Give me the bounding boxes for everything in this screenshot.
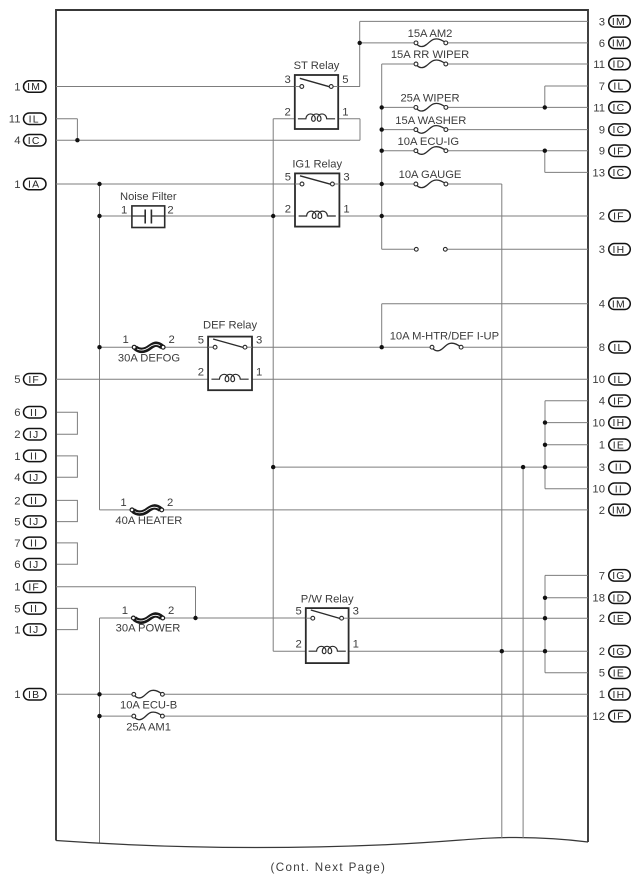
wire DEF pin1 to 10 IL (252, 378, 588, 380)
connector 5 II (14, 603, 46, 616)
svg-text:IF: IF (28, 375, 40, 386)
wire 10A GAUGE out (446, 183, 502, 185)
connector 2 II (14, 495, 46, 508)
node wiper tap (380, 105, 384, 109)
wire coil bus (x=273) (272, 119, 274, 651)
connector 3 IM (599, 16, 631, 29)
connector 5 IJ (14, 516, 46, 529)
svg-text:II: II (30, 604, 38, 615)
wire 10 IH (545, 422, 588, 424)
node 2 IF tap (380, 214, 384, 218)
svg-text:1: 1 (121, 205, 127, 217)
connector 10 IL (592, 373, 630, 386)
jumper bracket 7 II / 6 IJ (57, 543, 77, 564)
svg-text:1: 1 (353, 639, 359, 651)
svg-text:1: 1 (14, 689, 20, 701)
connector 2 IJ (14, 429, 46, 442)
wire 6 IM fuse feed (360, 42, 416, 44)
svg-text:IM: IM (27, 82, 41, 93)
svg-text:IC: IC (28, 136, 41, 147)
svg-text:IJ: IJ (29, 625, 39, 636)
wire 9 IF out (446, 150, 588, 152)
svg-text:IM: IM (612, 17, 626, 28)
wire 4 IF (545, 400, 588, 402)
connector 7 II (14, 537, 46, 550)
fuse 15A WASHER (395, 115, 466, 133)
connector 4 IJ (14, 471, 46, 484)
svg-text:5: 5 (14, 517, 20, 529)
svg-text:II: II (30, 408, 38, 419)
svg-text:10A GAUGE: 10A GAUGE (399, 169, 462, 181)
svg-text:11: 11 (593, 59, 605, 71)
wire 40A HEATER feed (100, 509, 133, 511)
svg-text:10: 10 (592, 418, 605, 430)
svg-text:10A ECU-IG: 10A ECU-IG (398, 136, 460, 148)
svg-text:IF: IF (28, 582, 40, 593)
relay ST Relay (285, 60, 349, 129)
wire P/W pin2 lead (273, 650, 306, 652)
svg-text:18: 18 (592, 593, 605, 605)
wire 3 IH out (445, 248, 588, 250)
fuse 10A ECU-IG (398, 136, 460, 154)
wire 25A WIPER feed (382, 106, 416, 108)
svg-text:3: 3 (353, 606, 359, 618)
connector 1 IJ (14, 624, 46, 637)
svg-text:7: 7 (599, 81, 605, 93)
wire IF/IH/IE/II tie bus (544, 401, 546, 489)
connector 1 II (14, 450, 46, 463)
svg-text:15A WASHER: 15A WASHER (395, 115, 466, 127)
svg-text:IE: IE (613, 440, 625, 451)
svg-text:7: 7 (14, 538, 20, 550)
connector 5 IF (14, 373, 46, 386)
wire 11 ID out (446, 63, 588, 65)
svg-text:IL: IL (613, 82, 624, 93)
node NF feed (97, 214, 101, 218)
connector 11 IL (9, 113, 46, 126)
fusible link 30A DEFOG (118, 334, 180, 364)
connector 10 II (592, 483, 630, 496)
jumper bracket 1 II / 4 IJ (57, 456, 77, 477)
svg-text:2: 2 (167, 497, 173, 509)
wire 1 IA to IG1 pin5 (56, 183, 302, 185)
svg-text:5: 5 (285, 172, 291, 184)
node IB split (97, 692, 101, 696)
node AM2 tap (358, 41, 362, 45)
noise filter C1 (120, 191, 177, 228)
svg-text:1: 1 (14, 625, 20, 637)
node gauge tap (380, 182, 384, 186)
svg-text:1: 1 (343, 204, 349, 216)
svg-text:2: 2 (599, 613, 605, 625)
node 18 ID tap (543, 596, 547, 600)
wire 3 II (273, 466, 588, 468)
svg-text:IG: IG (612, 647, 625, 658)
svg-text:6: 6 (14, 407, 20, 419)
node IA split (97, 182, 101, 186)
svg-text:2: 2 (168, 605, 174, 617)
svg-text:IF: IF (613, 211, 625, 222)
relay DEF Relay (198, 319, 262, 390)
node 2 IG tap (500, 649, 504, 653)
svg-text:11: 11 (593, 102, 605, 114)
svg-text:13: 13 (592, 167, 605, 179)
svg-text:2: 2 (296, 639, 302, 651)
svg-text:9: 9 (599, 146, 605, 158)
connector 7 IL (599, 80, 631, 93)
wire 1 IB feed (56, 693, 134, 695)
wire ST relay pin1 drop (359, 119, 361, 140)
svg-text:IL: IL (613, 343, 624, 354)
connector 11 ID (593, 58, 630, 71)
svg-text:IC: IC (613, 103, 626, 114)
connector 1 IM (14, 81, 46, 94)
svg-text:4: 4 (14, 472, 20, 484)
node DEFOG feed (97, 345, 101, 349)
svg-text:25A AM1: 25A AM1 (126, 721, 171, 733)
wire ST relay pin5 riser (359, 21, 361, 86)
svg-text:ID: ID (613, 60, 626, 71)
connector 9 IF (599, 145, 631, 158)
wire 4 IC (56, 139, 360, 141)
wire 8 IL out (461, 346, 588, 348)
svg-text:10A M-HTR/DEF I-UP: 10A M-HTR/DEF I-UP (390, 330, 499, 342)
svg-text:II: II (30, 496, 38, 507)
node AM1 feed (97, 714, 101, 718)
wire 11 IC out (446, 106, 588, 108)
svg-text:IF: IF (613, 146, 625, 157)
svg-text:IE: IE (613, 614, 625, 625)
svg-text:4: 4 (14, 135, 20, 147)
connector 12 IF (592, 710, 630, 723)
wire 10A ECU-IG feed (382, 150, 416, 152)
wire power to P/W pin5 (163, 617, 306, 619)
node 3 II drop (521, 465, 525, 469)
wire 7 IL (545, 85, 588, 87)
wire 1 IF drop (195, 587, 197, 618)
svg-text:IJ: IJ (29, 560, 39, 571)
wire heater to 2 IM (162, 509, 588, 511)
node 2 IG tie (543, 649, 547, 653)
svg-text:IM: IM (612, 39, 626, 50)
svg-text:4: 4 (599, 396, 605, 408)
jumper bracket 6 II / 2 IJ (57, 412, 77, 434)
svg-text:11: 11 (9, 114, 21, 126)
svg-text:IF: IF (613, 396, 625, 407)
fuse 10A ECU-B (120, 690, 177, 711)
svg-text:2: 2 (599, 211, 605, 223)
svg-text:IB: IB (28, 690, 40, 701)
connector 13 IC (592, 167, 630, 180)
svg-text:II: II (615, 484, 623, 495)
svg-text:(Cont. Next Page): (Cont. Next Page) (271, 861, 387, 874)
svg-text:II: II (30, 539, 38, 550)
svg-text:IM: IM (612, 506, 626, 517)
node mhtr tap (380, 345, 384, 349)
node 2 IE tap (543, 616, 547, 620)
connector 1 IH (599, 689, 631, 702)
wire 6 IM out (446, 42, 588, 44)
svg-text:II: II (615, 463, 623, 474)
fuse 25A WIPER (400, 93, 459, 112)
diagram border frame (56, 10, 588, 842)
fuse 15A RR WIPER (391, 49, 469, 67)
svg-text:4: 4 (599, 299, 605, 311)
connector 4 IF (599, 395, 631, 408)
wire 4 IM riser (381, 304, 383, 347)
wire 7 IG (545, 574, 588, 576)
svg-text:9: 9 (599, 125, 605, 137)
connector 3 II (599, 461, 631, 474)
wire IA feed bus upper (x=99.5) (99, 184, 101, 510)
wire 1 IE (545, 444, 588, 446)
wire 10 II (545, 488, 588, 490)
node IF/power (193, 616, 197, 620)
connector 1 IE (599, 439, 631, 452)
wire 13 IC out (545, 171, 588, 173)
connector 5 IE (599, 667, 631, 680)
svg-text:10: 10 (592, 484, 605, 496)
fuse 25A AM1 (126, 712, 171, 733)
connector 7 IG (599, 570, 631, 583)
svg-text:1: 1 (599, 440, 605, 452)
torn-page wavy bottom edge (56, 837, 588, 847)
wire DEFOG to DEF pin5 (163, 346, 215, 348)
svg-text:IJ: IJ (29, 517, 39, 528)
wire 11 IL stub (56, 118, 77, 120)
wire IG1 pin3 to gauge fuse (339, 183, 416, 185)
svg-text:2: 2 (14, 429, 20, 441)
svg-text:3: 3 (599, 462, 605, 474)
wire P/W pin1 to 2 IG (349, 650, 588, 652)
wire 4 IM (382, 303, 588, 305)
fusible link 40A HEATER (115, 497, 182, 527)
wire ST pin2 lead (273, 118, 295, 120)
wire 25A AM1 feed (100, 715, 134, 717)
svg-text:30A POWER: 30A POWER (116, 623, 181, 635)
svg-text:2: 2 (599, 646, 605, 658)
wire 3 IH open feed (382, 248, 417, 250)
svg-text:P/W Relay: P/W Relay (301, 593, 354, 605)
svg-text:3: 3 (343, 172, 349, 184)
node 1 IE tap (543, 443, 547, 447)
node IL/IC (75, 138, 79, 142)
svg-text:15A AM2: 15A AM2 (408, 28, 453, 40)
node coil bus NF (271, 214, 275, 218)
node ecuig tap (380, 149, 384, 153)
wire 9 IC out (446, 129, 588, 131)
svg-text:1: 1 (14, 582, 20, 594)
svg-text:DEF Relay: DEF Relay (203, 319, 257, 331)
svg-text:1: 1 (122, 605, 128, 617)
node washer tap (380, 127, 384, 131)
svg-text:Noise Filter: Noise Filter (120, 191, 177, 203)
svg-text:1: 1 (14, 81, 20, 93)
svg-text:25A WIPER: 25A WIPER (400, 93, 459, 105)
svg-text:IG: IG (612, 571, 625, 582)
svg-text:1: 1 (599, 689, 605, 701)
svg-text:1: 1 (342, 106, 348, 118)
svg-text:2: 2 (599, 505, 605, 517)
connector 18 ID (592, 592, 630, 605)
wire NF to IG1 pin2 (165, 215, 295, 217)
svg-text:5: 5 (14, 603, 20, 615)
jumper bracket 5 II / 1 IJ (57, 608, 77, 629)
wire ST pin5 out (332, 86, 360, 88)
svg-text:IH: IH (613, 245, 626, 256)
svg-text:IL: IL (613, 375, 624, 386)
wire 3 IM (360, 20, 588, 22)
connector 1 IF (14, 581, 46, 594)
wire 15A WASHER feed (382, 129, 416, 131)
svg-text:IM: IM (612, 299, 626, 310)
svg-text:1: 1 (123, 334, 129, 346)
connector 2 IE (599, 612, 631, 625)
wire 5 IF to DEF pin2 (56, 378, 208, 380)
connector 2 IM (599, 504, 631, 517)
connector 11 IC (593, 102, 630, 115)
svg-text:II: II (30, 452, 38, 463)
connector 1 IB (14, 689, 46, 702)
wire 11 ID fuse feed (382, 63, 416, 65)
wire 1 IM to ST pin3 (56, 86, 302, 88)
connector 6 IJ (14, 559, 46, 572)
wire 7 IL branch (544, 86, 546, 107)
svg-text:2: 2 (285, 204, 291, 216)
node 9 IF tap (543, 149, 547, 153)
wire 5 IE (545, 672, 588, 674)
svg-text:6: 6 (14, 559, 20, 571)
connector 10 IH (592, 417, 630, 430)
svg-text:IL: IL (29, 114, 40, 125)
connector 2 IG (599, 645, 631, 658)
wire ST pin1 lead (338, 118, 360, 120)
wire DEF pin3 to M-HTR fuse (252, 346, 432, 348)
fusible link 30A POWER (116, 605, 181, 635)
wire IG/ID/IE tie bus (544, 575, 546, 672)
connector 1 IA (14, 178, 46, 191)
svg-text:IF: IF (613, 712, 625, 723)
wire 30A POWER feed (100, 617, 134, 619)
connector 2 IF (599, 210, 631, 223)
node coil bus 3 II (271, 465, 275, 469)
svg-text:3: 3 (256, 335, 262, 347)
wire IL/IC join (76, 119, 78, 141)
wire 1 IF (56, 586, 196, 588)
wire fuse column feed (x=381.7) (381, 64, 383, 249)
svg-text:3: 3 (599, 244, 605, 256)
wire 3 II long drop (x=523.1) (522, 467, 524, 838)
jumper bracket 2 II / 5 IJ (57, 500, 77, 521)
svg-text:10A ECU-B: 10A ECU-B (120, 699, 177, 711)
svg-text:IJ: IJ (29, 473, 39, 484)
connector 6 II (14, 406, 46, 419)
wire IG1 pin1 to 2 IF (339, 215, 588, 217)
svg-text:5: 5 (198, 335, 204, 347)
svg-text:3: 3 (599, 16, 605, 28)
svg-text:30A DEFOG: 30A DEFOG (118, 352, 180, 364)
svg-text:40A HEATER: 40A HEATER (115, 515, 182, 527)
svg-text:8: 8 (599, 342, 605, 354)
wire gauge feed long drop (x=501.8) (501, 184, 503, 838)
spare fuse slot (3 IH) (414, 247, 447, 251)
svg-text:2: 2 (167, 205, 173, 217)
svg-text:2: 2 (198, 367, 204, 379)
svg-text:IG1 Relay: IG1 Relay (292, 159, 342, 171)
node 10 IH tap (543, 420, 547, 424)
connector 9 IC (599, 124, 631, 137)
svg-text:5: 5 (342, 74, 348, 86)
svg-text:1: 1 (120, 497, 126, 509)
svg-text:10: 10 (592, 374, 605, 386)
svg-text:15A RR WIPER: 15A RR WIPER (391, 49, 469, 61)
svg-text:7: 7 (599, 570, 605, 582)
connector 4 IM (599, 298, 631, 311)
relay IG1 Relay (285, 159, 350, 227)
svg-text:IA: IA (28, 180, 40, 191)
svg-text:6: 6 (599, 38, 605, 50)
svg-text:2: 2 (285, 106, 291, 118)
wire P/W pin3 to 2 IE (349, 617, 588, 619)
wire 18 ID (545, 597, 588, 599)
wire 30A DEFOG feed (100, 346, 135, 348)
svg-text:1: 1 (14, 451, 20, 463)
svg-text:2: 2 (168, 334, 174, 346)
node 11 IC tap (543, 105, 547, 109)
svg-text:ST Relay: ST Relay (294, 60, 340, 72)
svg-text:IC: IC (613, 168, 626, 179)
wire 13 IC branch (544, 151, 546, 173)
svg-text:12: 12 (592, 711, 605, 723)
svg-text:5: 5 (296, 606, 302, 618)
connector 3 IH (599, 244, 631, 257)
node 3 II tie (543, 465, 547, 469)
svg-text:IH: IH (613, 690, 626, 701)
svg-text:ID: ID (613, 593, 626, 604)
connector 6 IM (599, 37, 631, 50)
fuse 10A M-HTR/DEF I-UP (390, 330, 499, 350)
relay P/W Relay (296, 593, 359, 663)
connector 8 IL (599, 341, 631, 354)
wire battery bus lower (x=99.5) (99, 618, 101, 843)
fuse 15A AM2 (408, 28, 453, 46)
svg-text:1: 1 (14, 179, 20, 191)
svg-text:5: 5 (599, 668, 605, 680)
svg-text:5: 5 (14, 374, 20, 386)
svg-text:IC: IC (613, 125, 626, 136)
fuse 10A GAUGE (399, 169, 462, 188)
svg-text:IE: IE (613, 668, 625, 679)
svg-text:IH: IH (613, 418, 626, 429)
svg-text:IJ: IJ (29, 430, 39, 441)
wire ECU-B to 1 IH (162, 693, 588, 695)
wire noise filter feed (100, 215, 132, 217)
connector 4 IC (14, 134, 46, 147)
svg-text:1: 1 (256, 367, 262, 379)
svg-text:3: 3 (285, 74, 291, 86)
wire AM1 to 12 IF (162, 715, 588, 717)
svg-text:2: 2 (14, 495, 20, 507)
